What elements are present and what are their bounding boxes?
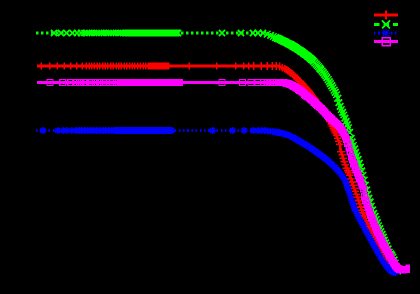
green curve x markers	[51, 30, 401, 274]
magenta curve square markers	[47, 80, 410, 274]
green curve dashed line	[36, 33, 403, 274]
legend blue entry	[374, 28, 398, 37]
blue curve * markers	[40, 127, 399, 276]
magenta curve line	[37, 83, 408, 271]
legend red entry	[374, 10, 398, 19]
legend green entry	[374, 21, 398, 29]
blue curve dotted line	[36, 131, 404, 273]
red curve line	[37, 66, 402, 271]
legend magenta entry	[374, 38, 398, 46]
red curve + markers	[38, 62, 398, 274]
